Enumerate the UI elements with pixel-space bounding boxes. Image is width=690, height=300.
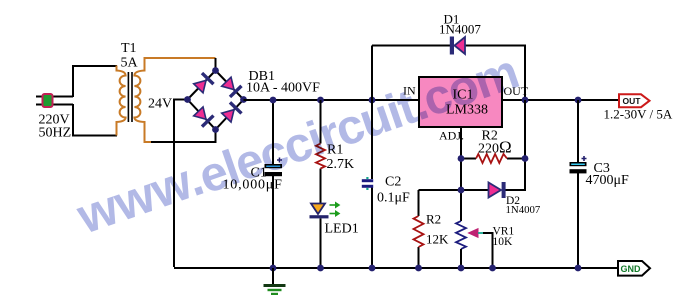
wire: C2 / D1 branch vertical: [371, 46, 373, 268]
label T1 5A: [121, 41, 139, 71]
diode D2: [489, 182, 506, 198]
LED LED1: [310, 202, 340, 218]
node ground rail: C3: [575, 265, 582, 272]
label R2 220ohm: [478, 129, 512, 157]
svg-text:5A: 5A: [121, 56, 139, 71]
svg-text:10K: 10K: [493, 236, 514, 248]
capacitor C3: [570, 156, 587, 173]
diode DB1-d: [221, 101, 243, 123]
label 220V 50HZ: [39, 113, 72, 141]
wire: R2 220 row: [461, 158, 525, 160]
resistor R2 12K: [414, 216, 424, 247]
label IN: [403, 84, 416, 98]
svg-text:24V: 24V: [148, 97, 172, 112]
plug P1: [43, 94, 53, 107]
svg-text:www.: www.: [69, 150, 210, 245]
node bridge bottom: [212, 126, 219, 133]
wire: bridge left node to ground rail: [174, 100, 188, 268]
svg-text:4700μF: 4700μF: [586, 173, 630, 188]
label D2 1N4007: [506, 195, 541, 216]
capacitor C1: [265, 158, 283, 177]
label OUT: [504, 84, 529, 98]
bridge rectifier DB1: [184, 67, 247, 133]
node ground rail: C2: [369, 265, 376, 272]
label R2 12K: [426, 212, 449, 247]
wire: secondary top to bridge: [145, 58, 216, 59]
terminal GND flag: [618, 261, 650, 276]
potentiometer VR1: [456, 221, 493, 267]
wire: R1 branch: [320, 100, 322, 267]
node bridge left: [184, 96, 191, 103]
node rail C3: [575, 97, 582, 104]
resistor R1: [316, 144, 325, 169]
node D2 left: [458, 187, 465, 194]
IC U1 LM338: [419, 77, 502, 127]
wire: plug prongs: [36, 97, 73, 105]
wire: C3 drop: [577, 100, 579, 267]
wire: top D1 wire: [372, 46, 525, 101]
wire: primary loop bottom: [73, 104, 117, 136]
svg-text:LED1: LED1: [325, 222, 359, 237]
wire: D2 row: [419, 189, 526, 190]
node ground rail: LED: [317, 265, 324, 272]
resistor R2 220: [476, 154, 507, 163]
node rail C2: [369, 97, 376, 104]
wire: primary loop top: [73, 66, 117, 97]
svg-text:1.2-30V / 5A: 1.2-30V / 5A: [604, 107, 673, 122]
wire: main positive rail: [244, 99, 420, 101]
svg-text:0.1μF: 0.1μF: [377, 191, 410, 206]
diode D1: [450, 37, 465, 55]
wire: bottom ground rail: [174, 267, 618, 269]
svg-text:12K: 12K: [426, 232, 449, 247]
label D1 1N4007: [439, 12, 481, 37]
node bridge right: [240, 96, 247, 103]
diode DB1-b: [221, 76, 243, 98]
node ground rail: wiper: [489, 265, 496, 272]
svg-text:50HZ: 50HZ: [39, 126, 72, 141]
ground: [264, 268, 286, 295]
label C1 10,000uF: [223, 166, 283, 193]
wire: right vertical to D2: [524, 100, 526, 190]
svg-text:1N4007: 1N4007: [506, 204, 541, 216]
terminal OUT flag: [619, 94, 650, 107]
diode DB1-c: [193, 106, 215, 128]
node adj/R2 left: [458, 155, 465, 162]
wire: out rail: [502, 99, 619, 101]
node rail out junction: [522, 97, 529, 104]
label ADJ: [439, 129, 464, 143]
label VR1 10K: [493, 226, 515, 249]
svg-text:10A - 400VF: 10A - 400VF: [246, 81, 320, 96]
label 1.2-30V / 5A: [604, 107, 673, 122]
svg-text:T1: T1: [121, 41, 137, 56]
svg-text:C2: C2: [385, 175, 401, 190]
capacitor C2: [362, 177, 373, 190]
transformer T1: [117, 59, 153, 143]
label R1 2.7K: [327, 143, 355, 173]
node bridge top: [212, 67, 219, 74]
wire: C1 drop: [272, 100, 274, 267]
diode DB1-a: [193, 72, 215, 94]
svg-text:GND: GND: [621, 264, 642, 274]
label DB1 10A - 400VF: [246, 69, 320, 96]
watermark www.eleccircuit.com: [69, 45, 524, 245]
node rail R1: [317, 97, 324, 104]
node rail C1: [270, 97, 277, 104]
wire: drop to bridge top node: [215, 58, 217, 71]
node R2 right: [522, 155, 529, 162]
node ground rail: VR1: [458, 265, 465, 272]
label LED1: [325, 222, 359, 237]
wire: R2 12K branch: [418, 190, 420, 267]
label C2 0.1uF: [377, 175, 410, 206]
node ground rail: R12K: [415, 265, 422, 272]
svg-text:1N4007: 1N4007: [439, 22, 481, 37]
svg-text:R2: R2: [426, 212, 441, 227]
wire: secondary bottom to bridge bottom: [151, 130, 216, 143]
wire: adj drop: [460, 127, 462, 221]
label C3 4700uF: [586, 161, 630, 188]
svg-text:OUT: OUT: [623, 96, 642, 106]
label 24V: [148, 97, 172, 112]
node ground rail: ground: [270, 265, 277, 272]
